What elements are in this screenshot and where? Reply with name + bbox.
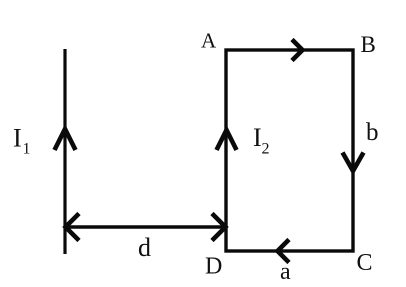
wire I1 (long straight conductor) xyxy=(63,49,66,254)
label a (loop side length) xyxy=(280,259,291,285)
loop ABCD (rectangle) xyxy=(226,50,353,251)
label b (loop side length) xyxy=(366,119,379,146)
svg-text:I: I xyxy=(253,123,262,152)
svg-text:2: 2 xyxy=(262,141,270,158)
label I1 xyxy=(13,124,31,158)
label I2 xyxy=(253,123,270,158)
svg-text:D: D xyxy=(205,254,222,280)
node label C xyxy=(357,250,373,276)
current arrow on side DA (upward, left edge) xyxy=(217,130,237,150)
svg-text:A: A xyxy=(201,29,217,53)
node label D xyxy=(205,254,222,280)
current arrow on side AB (rightward, top edge) xyxy=(292,40,303,61)
arrowhead left end of d xyxy=(66,214,80,241)
svg-text:a: a xyxy=(280,259,291,285)
svg-text:C: C xyxy=(357,250,373,276)
svg-text:d: d xyxy=(138,233,151,262)
node label B xyxy=(361,32,376,57)
arrowhead right end of d xyxy=(212,214,226,241)
current arrow on side CD (leftward, bottom edge) xyxy=(278,240,290,263)
distance line d (between wire and loop) xyxy=(66,225,225,228)
node label A xyxy=(201,29,217,53)
svg-text:I: I xyxy=(13,124,22,153)
label d xyxy=(138,233,151,262)
current arrow I1 (upward) xyxy=(55,129,76,150)
svg-text:B: B xyxy=(361,32,376,57)
svg-text:1: 1 xyxy=(23,141,31,158)
current arrow on side BC (downward, right edge) xyxy=(343,153,364,172)
svg-text:b: b xyxy=(366,119,379,146)
